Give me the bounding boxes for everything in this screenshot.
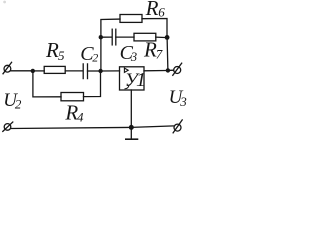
node B [98, 69, 102, 73]
wire output node to terminal [168, 69, 174, 71]
wire R5 to C2 [65, 70, 83, 72]
ground junction node [129, 125, 134, 130]
svg-text:6: 6 [158, 4, 165, 19]
label C2 [80, 43, 98, 65]
wire node A down to R4 row [33, 71, 61, 97]
wire R4 up to node B [84, 71, 101, 97]
label R4 [64, 101, 84, 125]
wire right column down to output node [166, 38, 169, 71]
bottom rail wire [11, 126, 174, 129]
wire R6 to right column [142, 19, 167, 38]
wire input to node A [11, 70, 33, 72]
svg-text:4: 4 [77, 110, 84, 125]
wire C2 to node B [88, 70, 101, 72]
wire node B to amplifier input [101, 70, 120, 72]
wire R7 to right node [156, 36, 167, 39]
wire C3 to R7 [116, 36, 134, 38]
svg-text:2: 2 [92, 50, 98, 64]
svg-text:R: R [45, 38, 59, 62]
wire node to C3 [101, 36, 112, 38]
svg-text:2: 2 [15, 97, 22, 112]
amp input triangle [124, 68, 128, 72]
capacitor C3 [112, 29, 116, 45]
capacitor C2 [83, 64, 87, 79]
output terminal (right, U3) [173, 63, 182, 75]
label R6 [145, 0, 166, 20]
resistor R5 [44, 66, 65, 73]
svg-text:3: 3 [179, 94, 187, 109]
node at feedback row right [165, 35, 170, 40]
У italic tail stroke [125, 86, 129, 89]
node at feedback row left [99, 35, 103, 39]
resistor R4 [61, 93, 84, 101]
svg-text:7: 7 [156, 46, 163, 61]
wire node B up to top rail corner [101, 19, 120, 71]
svg-text:R: R [145, 0, 159, 20]
amplifier U1 box [120, 67, 145, 90]
label U2 [3, 90, 22, 111]
resistor R7 [134, 33, 156, 41]
bottom-right terminal [173, 120, 182, 133]
label U3 [169, 87, 188, 109]
output node [166, 68, 170, 72]
node A [31, 69, 35, 73]
wire amplifier output to output node [144, 70, 166, 72]
label R5 [45, 38, 65, 63]
wire node A to R5 [33, 70, 44, 72]
label C3 [120, 42, 138, 64]
label У1 [125, 69, 146, 91]
svg-text:3: 3 [130, 50, 137, 64]
resistor R6 [120, 15, 142, 23]
input terminal (left, U2) [3, 62, 12, 74]
bottom-left terminal [3, 122, 13, 131]
label R7 [143, 38, 163, 62]
svg-text:5: 5 [58, 48, 65, 63]
ground symbol [126, 127, 138, 139]
amplifier ground pin wire [130, 90, 132, 127]
svg-text:1: 1 [136, 69, 146, 91]
scan smudge (noise) [3, 1, 6, 4]
